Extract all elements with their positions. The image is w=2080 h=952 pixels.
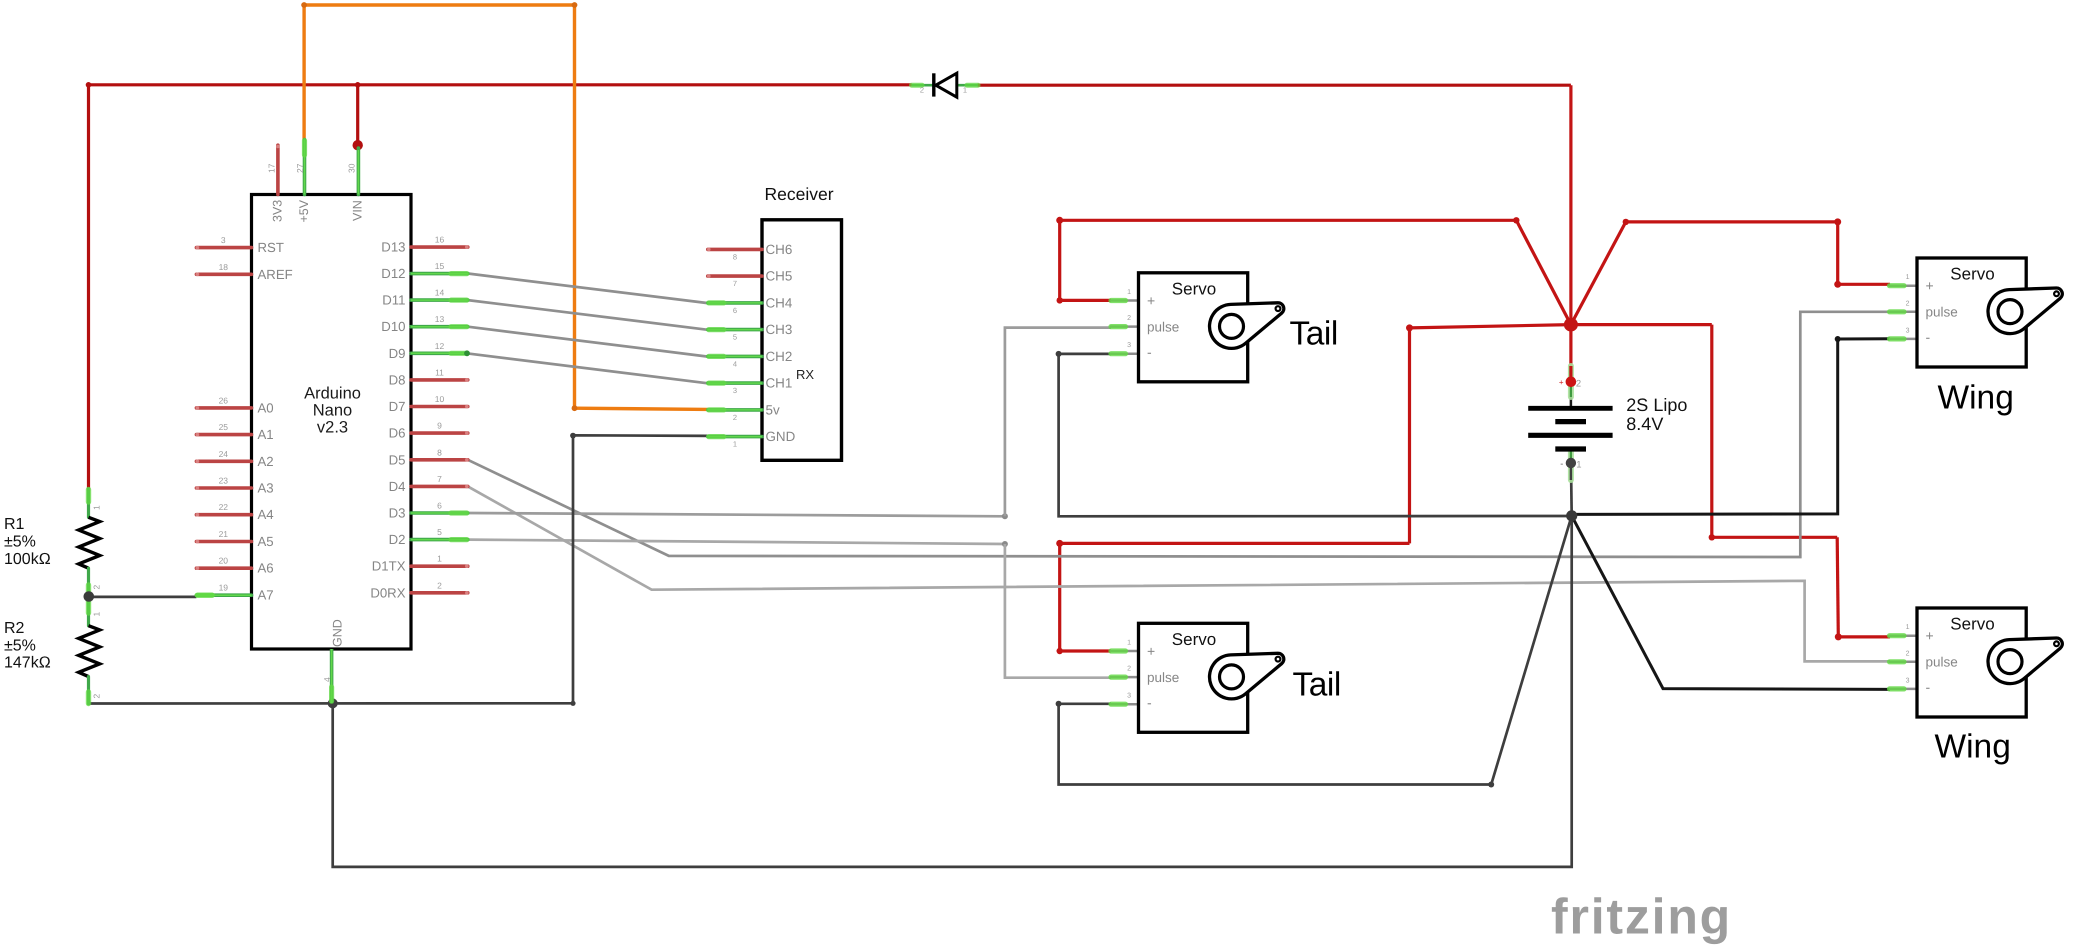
svg-text:-: - (1560, 459, 1563, 469)
svg-text:2S Lipo: 2S Lipo (1626, 395, 1687, 415)
svg-text:5v: 5v (766, 402, 780, 417)
svg-text:A6: A6 (258, 561, 274, 576)
svg-text:D0RX: D0RX (370, 585, 405, 600)
svg-text:RST: RST (258, 240, 284, 255)
svg-text:-: - (1926, 329, 1931, 345)
svg-text:1: 1 (92, 505, 102, 510)
svg-text:8.4V: 8.4V (1626, 414, 1663, 434)
svg-text:D5: D5 (389, 452, 406, 467)
svg-text:-: - (1147, 344, 1152, 360)
svg-text:2: 2 (92, 694, 102, 699)
svg-text:9: 9 (437, 421, 442, 431)
svg-text:CH3: CH3 (766, 322, 793, 337)
svg-text:30: 30 (347, 163, 357, 173)
svg-text:Tail: Tail (1290, 316, 1338, 353)
svg-text:13: 13 (435, 314, 445, 324)
svg-text:2: 2 (1127, 315, 1131, 322)
svg-text:+5V: +5V (297, 199, 311, 222)
svg-text:pulse: pulse (1147, 670, 1179, 685)
svg-text:Servo: Servo (1172, 279, 1216, 298)
svg-text:1: 1 (1127, 640, 1131, 647)
svg-text:-: - (1147, 694, 1152, 710)
svg-text:Servo: Servo (1950, 615, 1994, 634)
svg-text:D13: D13 (381, 240, 405, 255)
svg-text:D1TX: D1TX (372, 559, 406, 574)
svg-text:6: 6 (733, 306, 737, 315)
svg-text:1: 1 (1906, 624, 1910, 631)
svg-text:2: 2 (920, 86, 924, 95)
svg-text:A7: A7 (258, 588, 274, 603)
svg-text:Receiver: Receiver (764, 184, 833, 204)
svg-text:3: 3 (1127, 693, 1131, 700)
svg-text:R2: R2 (4, 620, 25, 637)
svg-text:3: 3 (733, 386, 737, 395)
svg-text:5: 5 (733, 333, 737, 342)
svg-text:3V3: 3V3 (271, 200, 285, 222)
svg-text:1: 1 (1576, 460, 1581, 471)
svg-text:8: 8 (733, 252, 737, 261)
svg-text:D7: D7 (389, 399, 406, 414)
svg-text:R1: R1 (4, 516, 25, 533)
svg-text:8: 8 (437, 447, 442, 457)
svg-text:A1: A1 (258, 427, 274, 442)
svg-text:+: + (1147, 643, 1155, 659)
svg-text:3: 3 (1127, 342, 1131, 349)
svg-text:3: 3 (1906, 677, 1910, 684)
svg-text:1: 1 (1127, 289, 1131, 296)
svg-text:A5: A5 (258, 534, 274, 549)
svg-text:Nano: Nano (313, 402, 352, 420)
svg-text:A2: A2 (258, 454, 274, 469)
svg-text:1: 1 (733, 440, 737, 449)
svg-text:+: + (1559, 378, 1564, 387)
svg-text:2: 2 (733, 413, 737, 422)
svg-text:1: 1 (963, 86, 967, 95)
svg-text:12: 12 (435, 341, 445, 351)
svg-text:+: + (1926, 278, 1934, 294)
svg-text:24: 24 (219, 449, 229, 459)
svg-text:7: 7 (437, 474, 442, 484)
svg-text:1: 1 (437, 554, 442, 564)
svg-text:Servo: Servo (1950, 265, 1994, 284)
svg-text:21: 21 (219, 529, 229, 539)
svg-text:17: 17 (267, 163, 277, 173)
svg-text:VIN: VIN (351, 200, 365, 221)
svg-text:GND: GND (331, 619, 345, 647)
svg-text:-: - (1926, 679, 1931, 695)
svg-text:A3: A3 (258, 481, 274, 496)
svg-text:D3: D3 (389, 506, 406, 521)
svg-text:+: + (1926, 628, 1934, 644)
svg-text:6: 6 (437, 501, 442, 511)
svg-text:Wing: Wing (1935, 729, 2011, 766)
svg-text:14: 14 (435, 288, 445, 298)
svg-text:D10: D10 (381, 319, 405, 334)
svg-text:15: 15 (435, 261, 445, 271)
svg-text:22: 22 (219, 502, 229, 512)
svg-text:D6: D6 (389, 426, 406, 441)
svg-text:18: 18 (219, 262, 229, 272)
svg-text:AREF: AREF (258, 267, 293, 282)
svg-text:2: 2 (1906, 300, 1910, 307)
svg-text:pulse: pulse (1926, 305, 1958, 320)
svg-text:20: 20 (219, 556, 229, 566)
svg-text:2: 2 (92, 585, 102, 590)
svg-text:D12: D12 (381, 266, 405, 281)
svg-text:D11: D11 (382, 293, 405, 308)
svg-text:100kΩ: 100kΩ (4, 551, 51, 568)
svg-text:RX: RX (796, 367, 814, 382)
svg-text:2: 2 (1127, 666, 1131, 673)
svg-text:CH4: CH4 (766, 295, 793, 310)
svg-text:A0: A0 (258, 400, 274, 415)
svg-text:CH6: CH6 (766, 242, 793, 257)
svg-text:7: 7 (733, 279, 737, 288)
svg-text:11: 11 (435, 367, 444, 377)
svg-text:16: 16 (435, 235, 445, 245)
svg-text:Wing: Wing (1938, 380, 2014, 417)
svg-text:26: 26 (219, 395, 229, 405)
svg-text:1: 1 (1906, 274, 1910, 281)
svg-text:19: 19 (219, 583, 229, 593)
svg-text:4: 4 (322, 677, 332, 682)
svg-text:v2.3: v2.3 (317, 419, 348, 437)
svg-text:D2: D2 (389, 532, 406, 547)
svg-text:2: 2 (1576, 379, 1581, 390)
svg-text:pulse: pulse (1147, 319, 1179, 334)
svg-text:D8: D8 (389, 372, 406, 387)
svg-text:3: 3 (1906, 327, 1910, 334)
svg-text:CH5: CH5 (766, 269, 793, 284)
svg-text:4: 4 (733, 359, 737, 368)
svg-text:Tail: Tail (1293, 667, 1341, 704)
svg-text:±5%: ±5% (4, 534, 36, 551)
svg-text:23: 23 (219, 476, 229, 486)
svg-text:2: 2 (1906, 650, 1910, 657)
svg-text:CH2: CH2 (766, 349, 793, 364)
svg-text:pulse: pulse (1926, 655, 1958, 670)
svg-text:Servo: Servo (1172, 630, 1216, 649)
svg-text:D9: D9 (389, 346, 406, 361)
svg-text:10: 10 (435, 394, 445, 404)
svg-text:1: 1 (92, 612, 102, 617)
svg-text:+: + (1147, 292, 1155, 308)
svg-text:fritzing: fritzing (1551, 889, 1732, 945)
svg-text:Arduino: Arduino (304, 385, 361, 403)
svg-text:D4: D4 (389, 479, 406, 494)
svg-text:A4: A4 (258, 507, 274, 522)
svg-text:CH1: CH1 (766, 376, 793, 391)
svg-text:27: 27 (295, 163, 305, 173)
svg-text:±5%: ±5% (4, 637, 36, 654)
svg-text:5: 5 (437, 527, 442, 537)
svg-text:2: 2 (437, 580, 442, 590)
svg-text:3: 3 (221, 235, 226, 245)
svg-text:GND: GND (766, 429, 796, 444)
svg-text:25: 25 (219, 422, 229, 432)
svg-text:147kΩ: 147kΩ (4, 655, 51, 672)
